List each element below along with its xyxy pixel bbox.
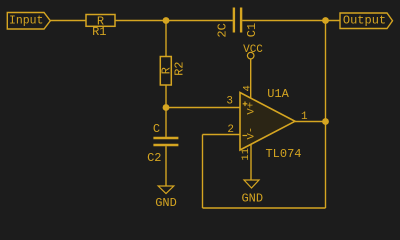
wire R1 to C1 xyxy=(115,20,233,22)
svg-text:2C: 2C xyxy=(216,23,230,37)
wire pin 11 to ground xyxy=(250,145,252,181)
resistor R2 xyxy=(160,57,187,86)
svg-text:1: 1 xyxy=(301,111,308,123)
wire C1 to Output xyxy=(242,20,340,22)
junction node at pin1 output xyxy=(322,118,329,125)
ground GND left xyxy=(155,186,177,210)
svg-text:2: 2 xyxy=(227,124,234,136)
capacitor C1 xyxy=(216,8,259,38)
wire feedback right vertical xyxy=(325,21,327,209)
svg-text:11: 11 xyxy=(240,148,252,161)
junction node at R2/C2/pin3 xyxy=(163,104,170,111)
wire R2 to node xyxy=(165,85,167,108)
capacitor C2 xyxy=(147,122,178,165)
svg-text:C: C xyxy=(153,122,160,136)
svg-text:GND: GND xyxy=(155,196,177,210)
ground GND right xyxy=(241,180,263,205)
op-amp minus input mark xyxy=(243,135,248,137)
wire node to op-amp pin 3 xyxy=(166,107,240,109)
wire feedback bottom horizontal xyxy=(203,207,326,209)
svg-text:3: 3 xyxy=(226,96,233,108)
svg-text:C2: C2 xyxy=(147,151,161,165)
svg-text:R2: R2 xyxy=(172,61,186,75)
junction node at R1/R2 xyxy=(163,17,170,24)
wire VCC to pin 4 xyxy=(250,59,252,99)
global label Input xyxy=(7,13,50,30)
wire Input to R1 xyxy=(50,20,86,22)
global label Output xyxy=(340,13,393,29)
svg-text:GND: GND xyxy=(241,191,263,205)
svg-text:V+: V+ xyxy=(245,102,257,115)
wire node to C2 xyxy=(165,108,167,137)
svg-text:C1: C1 xyxy=(245,23,259,37)
svg-text:Input: Input xyxy=(9,15,44,28)
wire feedback left vertical xyxy=(202,135,204,209)
svg-text:R1: R1 xyxy=(92,25,106,39)
wire junction to R2 xyxy=(165,21,167,57)
junction node at output top xyxy=(322,17,329,24)
op-amp plus input mark xyxy=(243,102,248,107)
wire C2 to ground xyxy=(165,146,167,186)
wire op-amp pin 2 xyxy=(203,134,241,136)
wire op-amp pin 1 output xyxy=(295,121,326,123)
svg-text:V-: V- xyxy=(245,127,257,140)
svg-text:TL074: TL074 xyxy=(265,147,301,161)
op-amp U1A body xyxy=(240,93,295,151)
svg-text:U1A: U1A xyxy=(267,87,289,101)
svg-text:4: 4 xyxy=(241,85,253,91)
power symbol VCC xyxy=(243,44,263,59)
svg-text:Output: Output xyxy=(343,14,386,28)
svg-text:VCC: VCC xyxy=(243,44,263,56)
resistor R1 xyxy=(86,14,115,39)
